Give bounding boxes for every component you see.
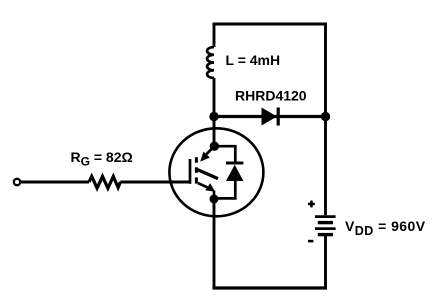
label RG = 82ohm: [71, 149, 133, 169]
transistor Q1 gate bar: [189, 159, 192, 184]
transistor Q1 emitter arrow: [205, 183, 215, 192]
battery V1 plate short: [318, 221, 333, 224]
diode D2 antiparallel: [226, 165, 243, 181]
label VDD = 960V: [345, 218, 426, 238]
node junction right: [321, 112, 330, 121]
wire right rail upper: [324, 23, 327, 216]
terminal input: [14, 179, 20, 185]
battery V1 plate long: [315, 227, 336, 230]
transistor Q1 collector arrow: [200, 152, 210, 162]
resistor RG: [89, 176, 120, 188]
battery V1 plate short bottom: [318, 233, 333, 236]
transistor Q1 emitter line: [198, 183, 211, 189]
wire antiparallel top: [214, 146, 235, 163]
wire gate lead right: [120, 181, 190, 184]
svg-text:RHRD4120: RHRD4120: [235, 88, 307, 104]
inductor L1: [207, 47, 214, 78]
wire freewheel horizontal: [214, 115, 326, 118]
transistor Q1 channel bar bottom: [195, 177, 198, 183]
wire right rail lower: [324, 236, 327, 290]
wire left vertical lower: [213, 199, 216, 289]
wire left vertical mid: [213, 78, 216, 146]
wire left vertical upper: [213, 23, 216, 47]
label plus sign: [308, 201, 315, 208]
wire gate lead left: [20, 181, 89, 184]
transistor Q1 channel bar mid: [195, 167, 198, 173]
wire top rail: [213, 23, 327, 26]
transistor Q1 body diagonal: [198, 170, 219, 179]
node junction left: [209, 112, 218, 121]
diode D1 RHRD4120: [262, 108, 279, 126]
battery V1 plate long top: [315, 215, 336, 218]
transistor Q1 channel bar top: [195, 157, 198, 163]
node emitter dot: [210, 195, 219, 204]
transistor Q1 collector line: [203, 146, 214, 157]
wire bottom rail: [213, 286, 327, 289]
label minus sign: [308, 240, 313, 243]
diode D2 cathode bar: [226, 162, 243, 165]
transistor Q1 circle: [169, 128, 263, 216]
node collector dot: [210, 142, 219, 151]
wire emitter arrow to node: [213, 191, 216, 200]
svg-text:L = 4mH: L = 4mH: [226, 52, 281, 68]
wire antiparallel bottom: [214, 181, 235, 198]
